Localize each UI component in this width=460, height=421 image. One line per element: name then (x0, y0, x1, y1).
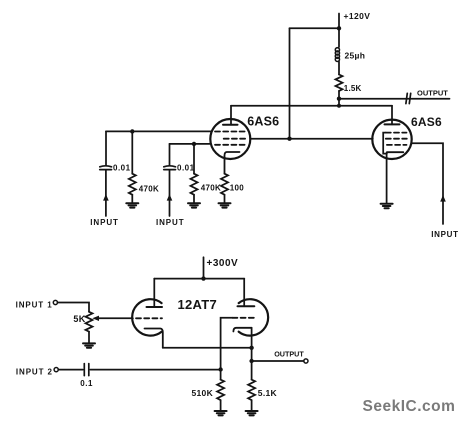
V3A cathode with lead down (145, 329, 163, 348)
wire cathode rail (163, 347, 252, 349)
wire grid1 input bus (upper left) (106, 130, 211, 132)
tube V1 6AS6 envelope (210, 119, 250, 159)
potentiometer 5K (86, 312, 93, 332)
V1 plate lead (230, 106, 232, 125)
V3B cathode bar with hook (233, 328, 251, 332)
V2 grid 2 (dashed) (386, 138, 407, 140)
junction dot output takeoff (337, 97, 341, 101)
ground under R5 (246, 411, 258, 415)
wire input 2 to coupling capacitor (58, 369, 83, 371)
wire resistor bottom lead (338, 91, 340, 106)
svg-text:+300V: +300V (207, 258, 239, 269)
resistor R4 510K (217, 380, 224, 401)
svg-text:100: 100 (230, 183, 244, 192)
wire capacitor to grid junction (90, 369, 220, 371)
wire plate bus V1 to V2 (231, 105, 392, 107)
ground under R4 (215, 411, 227, 415)
V2 cathode bar (387, 151, 403, 153)
V2 plate lead (391, 106, 393, 125)
wire cathode down to output node (251, 348, 253, 380)
svg-text:INPUT 1: INPUT 1 (16, 301, 53, 310)
junction dot +300V rail (201, 276, 205, 280)
V3A plate bar (147, 306, 163, 308)
V3A plate lead (153, 279, 155, 307)
svg-text:INPUT: INPUT (431, 230, 459, 239)
wire top rail to screen-grid branch (290, 27, 340, 29)
svg-text:OUTPUT: OUTPUT (417, 89, 448, 98)
svg-text:INPUT: INPUT (90, 218, 119, 227)
input 1 terminal circle (53, 300, 57, 304)
V2 suppressor-to-cathode bracket (383, 133, 387, 154)
wire R1 bottom lead (131, 195, 133, 203)
wire grid3 input bus (lower left) (170, 143, 212, 145)
V2 plate bar (385, 123, 400, 125)
capacitor C3 0.1 (84, 364, 89, 376)
wire R3 bottom lead (224, 195, 226, 203)
V3B cathode lead (251, 328, 253, 348)
wire input1 terminal lead (105, 170, 107, 216)
svg-text:+120V: +120V (344, 11, 371, 21)
V2 cathode lead (386, 153, 388, 203)
input2 arrowhead (167, 194, 173, 201)
wire +120V feed into inductor (338, 28, 340, 47)
ground under potentiometer (83, 343, 95, 347)
V3A grid (dashed) (136, 317, 162, 319)
tube V3A 12AT7 envelope (left triode) (132, 299, 161, 335)
ground under R2 (188, 203, 200, 207)
V1 grid 2 (dashed) (224, 138, 247, 140)
svg-text:SeekIC.com: SeekIC.com (363, 398, 456, 415)
wire output line (339, 98, 450, 100)
wire input2 branch down to capacitor (169, 144, 171, 166)
wire 470K no.2 top lead (193, 144, 195, 174)
svg-text:25µh: 25µh (345, 51, 366, 61)
capacitor C2 0.01 (164, 166, 176, 170)
ground under R3 (219, 203, 231, 207)
svg-text:12AT7: 12AT7 (178, 297, 218, 312)
wire inductor to resistor (338, 62, 340, 75)
wire V2 grid to right input (412, 143, 443, 224)
wire input2 terminal lead (169, 170, 171, 216)
tube V2 6AS6 envelope (372, 120, 411, 159)
junction dot screen bus (287, 137, 291, 141)
V2 grid 3 (dashed) (387, 144, 407, 146)
V1 grid 3 (dashed) (215, 144, 246, 146)
inductor L1 25µh (335, 48, 339, 62)
resistor R1 470K (129, 174, 136, 195)
resistor 1.5K plate load (336, 75, 343, 91)
wire R5 bottom lead (251, 400, 253, 410)
wire input 1 to potentiometer (58, 303, 90, 312)
svg-text:1.5K: 1.5K (344, 84, 362, 93)
svg-text:INPUT 2: INPUT 2 (16, 367, 53, 376)
ground under V2 cathode (381, 204, 393, 208)
potentiometer wiper arm to V3A grid (98, 317, 133, 319)
wire V1 grid2 to V2 grid (250, 138, 373, 140)
svg-text:6AS6: 6AS6 (411, 115, 442, 129)
wire 510K top lead (220, 370, 222, 380)
tube V3B 12AT7 envelope (right triode) (239, 299, 268, 335)
V1 cathode with lead down (225, 152, 240, 174)
wire R4 bottom lead (220, 400, 222, 410)
wire 470K no.1 top lead (131, 131, 133, 173)
node +300V supply terminal (203, 257, 205, 278)
junction dot grid3 bus (192, 142, 196, 146)
node +120V supply terminal (338, 14, 340, 29)
svg-text:510K: 510K (192, 388, 214, 398)
V2 grid 1 (dashed) (386, 132, 407, 134)
wire plate rail 12AT7 (154, 278, 244, 280)
input1 arrowhead (103, 194, 109, 201)
svg-text:470K: 470K (139, 184, 159, 193)
wire screen-grid drop (vertical to grid bus) (289, 28, 291, 138)
ground under R1 (126, 203, 138, 207)
V3B plate lead (243, 279, 245, 307)
junction dot grid1 bus (130, 129, 134, 133)
wire input1 branch down to capacitor (105, 131, 107, 165)
V1 grid 1 (dashed) (215, 131, 246, 133)
wire pot bottom lead (88, 332, 90, 343)
V3B grid lead to input 2 (221, 318, 233, 370)
resistor R5 5.1K (248, 380, 255, 401)
V1 plate bar (223, 124, 238, 126)
capacitor C1 0.01 (100, 166, 112, 170)
wire R2 bottom lead (193, 195, 195, 203)
wiper arrowhead (92, 316, 99, 321)
junction dot grid/510K (218, 367, 222, 371)
V3B plate bar (238, 305, 255, 307)
input 2 terminal circle (54, 368, 58, 372)
junction dot output node (249, 359, 253, 363)
svg-text:6AS6: 6AS6 (247, 115, 279, 129)
svg-text:5K: 5K (73, 314, 85, 324)
junction dot on plate bus (337, 104, 341, 108)
svg-text:0.1: 0.1 (80, 379, 93, 388)
resistor R2 470K (191, 174, 198, 195)
svg-text:470K: 470K (201, 184, 221, 193)
svg-text:OUTPUT: OUTPUT (274, 349, 304, 358)
svg-text:5.1K: 5.1K (258, 388, 278, 398)
wire output line (bottom) (252, 360, 304, 362)
junction dot at +120V rail (337, 26, 341, 30)
svg-text:0.01: 0.01 (177, 163, 195, 172)
capacitor output coupling (406, 93, 411, 103)
junction dot cathode rail (249, 346, 253, 350)
svg-text:0.01: 0.01 (113, 163, 131, 172)
resistor R3 100 (V1 cathode) (221, 174, 228, 195)
V3B grid (dashed) (232, 317, 256, 319)
output terminal circle (304, 359, 308, 363)
right input arrowhead (440, 195, 446, 202)
svg-text:INPUT: INPUT (156, 218, 185, 227)
